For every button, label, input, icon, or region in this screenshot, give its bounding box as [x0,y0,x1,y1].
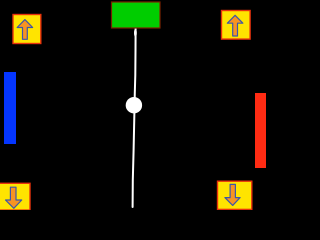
button square bottom-left [0,183,30,210]
down arrow bottom-left [6,187,22,208]
button square bottom-right [218,181,252,209]
button square top-right [222,11,251,40]
up arrow top-right [227,15,243,36]
button square top-left [13,15,41,44]
down arrow bottom-right [225,184,240,205]
ball [126,97,142,113]
red paddle [255,93,266,168]
blue paddle [4,72,16,144]
wire white vertical line [133,29,137,208]
up arrow top-left [17,20,33,40]
green goal rectangle [112,2,161,28]
